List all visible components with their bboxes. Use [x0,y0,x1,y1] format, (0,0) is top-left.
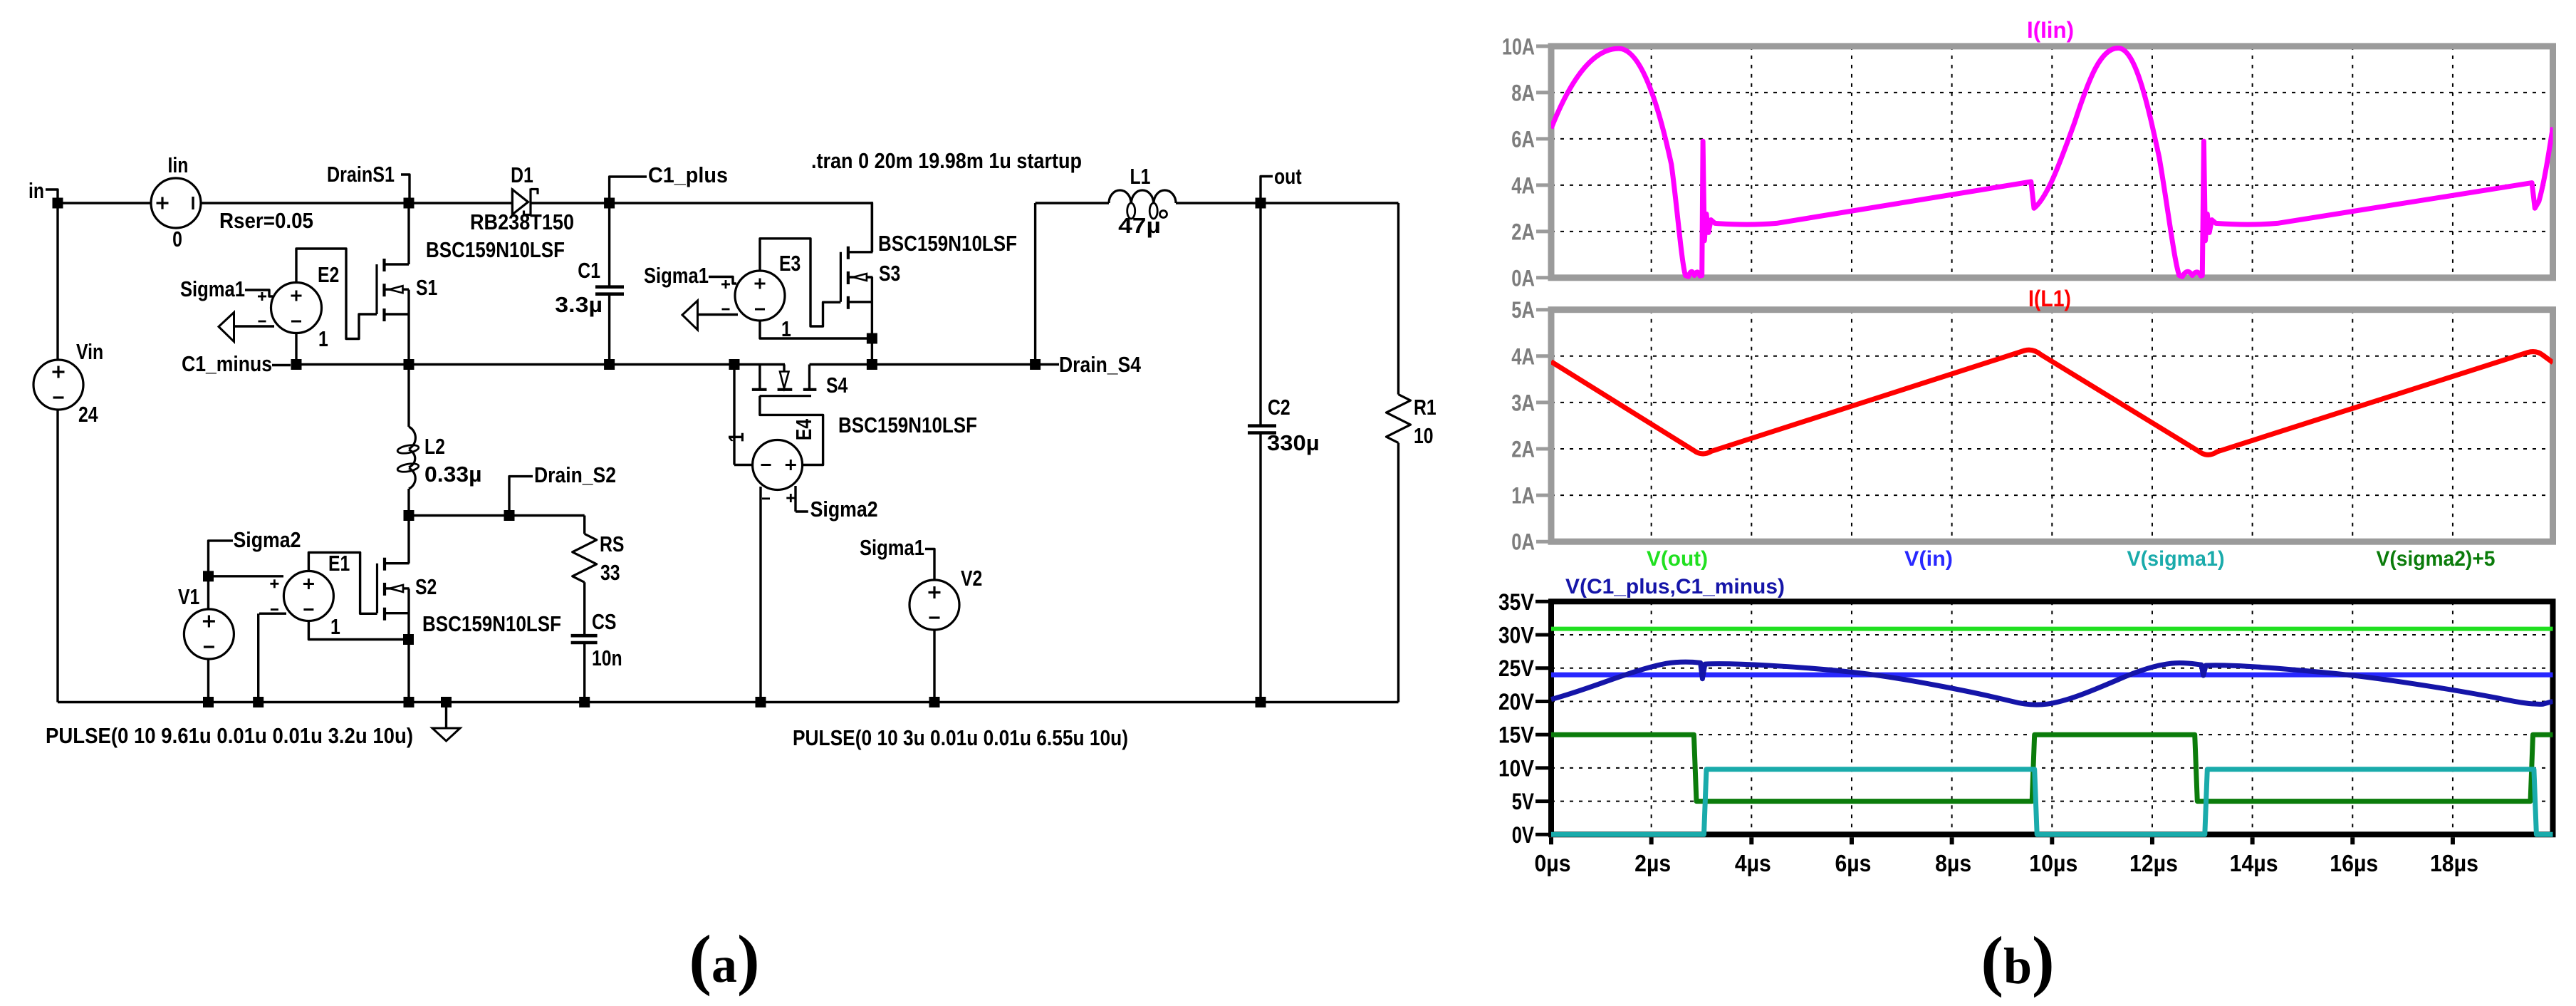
svg-text:RB238T150: RB238T150 [470,209,574,234]
svg-text:(a): (a) [689,921,759,997]
svg-text:4A: 4A [1511,343,1535,369]
plot 3 V(sigma1) cyan square wave [1551,769,2553,835]
svg-text:BSC159N10LSF: BSC159N10LSF [878,231,1017,256]
svg-text:C2: C2 [1268,395,1290,420]
svg-text:RS: RS [600,531,625,556]
wire L2 to RS (Drain_S2 rail) [409,516,585,534]
resistor RS (33) [573,531,625,634]
svg-text:Sigma1: Sigma1 [860,535,924,560]
junction E4 minus control ground [756,697,766,707]
svg-text:1: 1 [330,614,340,639]
svg-text:E3: E3 [779,251,801,276]
dependent source E1 (drives S2 gate) [209,551,409,702]
svg-text:8A: 8A [1511,80,1535,105]
svg-text:10: 10 [1414,423,1434,448]
svg-text:Iin: Iin [168,152,189,177]
svg-text:4µs: 4µs [1735,850,1771,876]
svg-text:I(L1): I(L1) [2028,286,2071,311]
svg-text:2A: 2A [1511,219,1535,244]
svg-text:S2: S2 [415,574,437,599]
node Sigma1 at V2 (net label) [860,535,934,580]
svg-text:C1: C1 [578,258,600,283]
svg-text:Sigma2: Sigma2 [234,527,301,552]
junction Sigma2/V1 [203,571,214,581]
svg-text:E4: E4 [791,418,816,440]
junction C1 top [604,198,615,209]
svg-text:33: 33 [600,560,620,585]
svg-text:Sigma2: Sigma2 [810,497,878,522]
wire top rail (in to D1) [58,202,512,204]
node Sigma2 at V1 (net label) [209,527,301,576]
node Drain_S4 (net label) [1041,352,1142,377]
transistor S4 (NMOS, rotated) [752,365,823,465]
junction S4/E4 on rail [729,359,740,370]
svg-text:0.33µ: 0.33µ [424,462,482,487]
svg-text:Rser=0.05: Rser=0.05 [219,208,313,233]
S4 part number label [838,413,977,437]
svg-text:0A: 0A [1511,529,1535,555]
svg-text:Drain_S4: Drain_S4 [1059,352,1142,377]
plot 3 V(sigma2)+5 dark green square wave [1551,735,2553,801]
node in (net label + hook) [28,178,58,203]
legend row 1 (V(out), V(in), V(sigma1), V(sigma2)+5) [1647,547,2496,571]
svg-text:6µs: 6µs [1835,850,1871,876]
plot 2 title I(L1) [2028,286,2071,311]
svg-text:10µs: 10µs [2029,850,2077,876]
ground flag [432,702,460,742]
svg-text:V(in): V(in) [1904,547,1953,571]
plot 2 waveform I(L1) red [1551,350,2553,455]
S1 part number label [426,237,565,262]
junction out node [1256,198,1266,209]
wire L1 to out node [1176,202,1261,204]
svg-text:1: 1 [724,432,749,442]
svg-text:5V: 5V [1512,789,1535,814]
svg-text:1: 1 [318,326,328,351]
svg-text:in: in [28,178,44,203]
node C1_plus (net label + hook) [610,162,728,203]
svg-text:(b): (b) [1981,923,2054,998]
dependent source E2 (drives S1 gate) [258,249,377,365]
current source Iin [151,152,313,251]
svg-text:CS: CS [592,609,617,634]
svg-text:6A: 6A [1511,126,1535,152]
svg-text:BSC159N10LSF: BSC159N10LSF [838,413,977,437]
svg-text:1A: 1A [1511,483,1535,509]
plot 1 frame, grid and axis labels (I(Iin)) [1502,33,2553,291]
svg-text:10A: 10A [1502,33,1535,59]
svg-text:30V: 30V [1498,623,1535,648]
wire Drain_S4 to L1 [1036,203,1109,365]
svg-text:Vin: Vin [76,339,103,364]
junction ground on rail [441,697,452,707]
junction E2 output on rail [291,359,302,370]
voltage source V2 (pulse) [909,566,982,702]
svg-text:35V: 35V [1498,589,1535,615]
svg-text:20V: 20V [1498,689,1535,715]
junction C1 bottom [604,359,615,370]
svg-text:S1: S1 [416,275,437,300]
svg-text:24: 24 [78,402,98,427]
node Sigma1 at E2 (net label) [180,276,273,301]
svg-text:PULSE(0 10 9.61u 0.01u 0.01u 3: PULSE(0 10 9.61u 0.01u 0.01u 3.2u 10u) [46,723,413,748]
svg-text:BSC159N10LSF: BSC159N10LSF [422,611,561,636]
wire top rail (D1 to S3 drain corner) [531,202,872,252]
inductor L1 (47u) [1109,164,1176,238]
svg-text:25V: 25V [1498,655,1535,681]
junction C2 bottom [1256,697,1266,707]
svg-text:10n: 10n [592,645,622,670]
junction L2 bottom [404,510,414,521]
svg-text:S4: S4 [826,373,848,398]
svg-text:L1: L1 [1130,164,1151,189]
svg-text:15V: 15V [1498,722,1535,748]
plot 3 V(C1_plus,C1_minus) navy curve [1551,662,2553,705]
wire out rail to R1 [1261,202,1399,204]
node C1_minus (net label) [182,351,291,376]
plot 1 waveform I(Iin) magenta [1551,48,2553,277]
svg-text:Sigma1: Sigma1 [180,276,245,301]
junction Drain_S2 [504,510,515,521]
node Sigma1 at E3 (net label) [644,263,736,288]
node Drain_S2 (net label + hook) [509,462,616,516]
V1 PULSE parameter text [46,723,413,748]
input arrow at E2 minus control [219,313,274,342]
S4 name label [826,373,848,398]
svg-text:14µs: 14µs [2230,850,2278,876]
spice directive .tran [811,148,1082,173]
svg-text:V(sigma1): V(sigma1) [2127,547,2225,571]
svg-text:C1_plus: C1_plus [648,162,728,187]
junction V1 bottom [203,697,214,707]
svg-text:2µs: 2µs [1634,850,1671,876]
svg-text:0V: 0V [1512,822,1535,848]
junction S2 source on bottom rail [404,697,414,707]
capacitor C2 (330u) [1248,203,1320,702]
junction E3 output to S3 source [867,333,877,344]
legend row 2 (V(C1_plus,C1_minus)) [1565,575,1785,598]
svg-text:1: 1 [781,316,791,341]
junction S3 source on rail [867,359,877,370]
svg-text:18µs: 18µs [2430,850,2478,876]
svg-text:V2: V2 [961,566,982,591]
S3 part number label [878,231,1017,256]
svg-text:E1: E1 [328,551,350,576]
junction E1 minus control ground [253,697,264,707]
node out (net label + hook) [1261,164,1302,203]
node DrainS1 (net label + hook) [327,162,410,203]
svg-text:10V: 10V [1498,755,1535,781]
figure label (b) [1981,923,2054,998]
svg-text:330µ: 330µ [1267,430,1320,455]
plot 2 frame, grid and axis labels (I(L1)) [1511,297,2552,555]
junction CS bottom [579,697,590,707]
transistor S2 (NMOS) [377,516,437,702]
figure label (a) [689,921,759,997]
svg-text:47µ: 47µ [1118,213,1161,238]
transistor S1 (NMOS) [377,203,437,365]
svg-text:3.3µ: 3.3µ [555,292,603,317]
svg-text:V(C1_plus,C1_minus): V(C1_plus,C1_minus) [1565,575,1785,598]
svg-text:BSC159N10LSF: BSC159N10LSF [426,237,565,262]
resistor R1 (10) [1387,203,1436,702]
svg-text:0A: 0A [1511,265,1535,291]
svg-text:V(sigma2)+5: V(sigma2)+5 [2377,547,2496,571]
S2 part number label [422,611,561,636]
svg-text:E2: E2 [318,262,339,287]
voltage source V1 (pulse) [178,576,234,702]
dependent source E3 (drives S3 gate) [721,239,872,341]
svg-text:S3: S3 [879,261,900,286]
svg-text:V1: V1 [178,584,199,609]
junction E1 output at S2 source [403,634,414,645]
svg-text:4A: 4A [1511,172,1535,198]
junction in-node [53,198,63,209]
svg-text:L2: L2 [424,434,445,459]
voltage source Vin (24 V) [33,203,103,702]
svg-text:8µs: 8µs [1935,850,1971,876]
svg-text:Sigma1: Sigma1 [644,263,709,288]
svg-text:out: out [1274,164,1302,189]
inductor L2 (0.33u) [397,365,481,516]
svg-text:3A: 3A [1511,390,1535,415]
svg-text:5A: 5A [1511,297,1535,323]
plot 1 title I(Iin) [2027,17,2074,43]
junction V2 bottom [929,697,940,707]
plot 3 V(out) green line [1551,627,2553,631]
svg-text:DrainS1: DrainS1 [327,162,395,187]
svg-text:V(out): V(out) [1647,547,1708,571]
input arrow at E3 minus control [682,301,738,330]
plot 3 V(in) blue line [1551,673,2553,678]
svg-text:Drain_S2: Drain_S2 [534,462,616,487]
dependent source E4 (drives S4 gate, rotated) [724,365,816,702]
node Sigma2 at E4 (net label) [810,497,878,522]
svg-text:0µs: 0µs [1535,850,1571,876]
diode D1 RB238T150 (schottky) [470,162,574,234]
V2 PULSE parameter text [793,725,1128,750]
capacitor CS (10n) [571,609,622,702]
svg-text:C1_minus: C1_minus [182,351,272,376]
plot 3 frame, grid, axis labels (voltages) [1498,589,2553,876]
svg-text:0: 0 [172,227,182,251]
svg-text:PULSE(0 10 3u 0.01u 0.01u 6.55: PULSE(0 10 3u 0.01u 0.01u 6.55u 10u) [793,725,1128,750]
junction DrainS1 [404,198,414,209]
capacitor C1 (3.3u) [555,203,624,365]
junction S1 source on rail [404,359,414,370]
junction Drain_S4 / L1 branch [1030,359,1041,370]
svg-text:12µs: 12µs [2129,850,2178,876]
svg-text:R1: R1 [1414,395,1436,420]
svg-text:16µs: 16µs [2330,850,2378,876]
svg-text:.tran 0 20m 19.98m 1u startup: .tran 0 20m 19.98m 1u startup [811,148,1082,173]
wire C1_minus rail [296,363,1036,365]
svg-text:D1: D1 [511,162,533,187]
svg-text:I(Iin): I(Iin) [2027,17,2074,43]
transistor S3 (NMOS) [840,203,900,365]
svg-text:2A: 2A [1511,437,1535,462]
wire ground/bottom rail [58,701,1399,703]
